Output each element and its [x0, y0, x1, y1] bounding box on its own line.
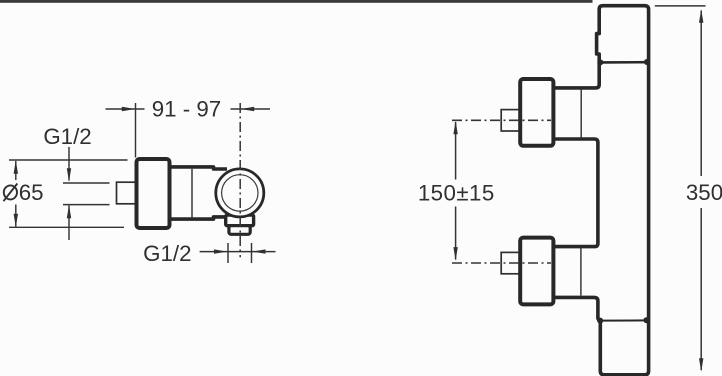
body top edge with step — [170, 167, 228, 169]
knob inner circle — [222, 175, 258, 211]
svg-text:G1/2: G1/2 — [43, 124, 91, 149]
lower connector bottom + bar lower left edge + bottom + right edge + top edge — [554, 6, 649, 375]
dia65 extension lines — [9, 159, 128, 161]
outlet nut (G1/2 outlet) — [229, 226, 250, 235]
outlet dim line and arrows — [200, 251, 228, 253]
upper handle block — [520, 79, 553, 146]
dim 91-97 left arrow — [106, 108, 145, 110]
dia65 dim line and arrows — [15, 161, 17, 180]
escutcheon wall plate — [137, 159, 170, 228]
knob vertical centerline — [239, 103, 241, 257]
dim 350 line and arrows — [700, 11, 702, 177]
svg-text:150±15: 150±15 — [418, 181, 495, 206]
upper valve nub — [501, 110, 520, 131]
body seam — [191, 169, 193, 218]
lower valve centerline — [452, 262, 551, 264]
dim 91-97 right arrow — [231, 108, 271, 110]
divider seam bottom — [600, 319, 646, 321]
body bottom edge with step — [170, 217, 228, 219]
dim 150+-15 line and arrows — [455, 122, 457, 180]
dim 350 extension line — [655, 5, 706, 7]
dim 91-97 extension line — [135, 103, 137, 158]
upper connector seam — [580, 90, 582, 138]
upper valve centerline — [452, 119, 551, 121]
svg-text:65: 65 — [19, 180, 44, 205]
lower handle block — [520, 238, 553, 305]
upper connector bottom + bar mid left edge + lower connector top — [554, 139, 598, 247]
dim text dia65 (custom diameter symbol + 65) — [4, 185, 17, 199]
body fill — [170, 167, 241, 219]
lower valve nub — [501, 252, 520, 273]
inlet dim arrows — [68, 147, 70, 181]
svg-text:350: 350 — [686, 180, 722, 205]
svg-text:91 - 97: 91 - 97 — [152, 97, 221, 122]
knob outer ring — [216, 169, 264, 217]
outlet dim ticks — [227, 243, 229, 263]
page top rule — [0, 0, 593, 3]
inlet dim extension lines — [63, 182, 110, 184]
column bar outline: notch + upper connector top — [554, 34, 599, 88]
outlet flange — [226, 215, 254, 226]
lower connector seam — [580, 248, 582, 296]
inlet nub (G1/2 inlet, side view) — [117, 182, 137, 204]
divider seam top — [600, 61, 647, 64]
svg-text:G1/2: G1/2 — [143, 241, 191, 266]
